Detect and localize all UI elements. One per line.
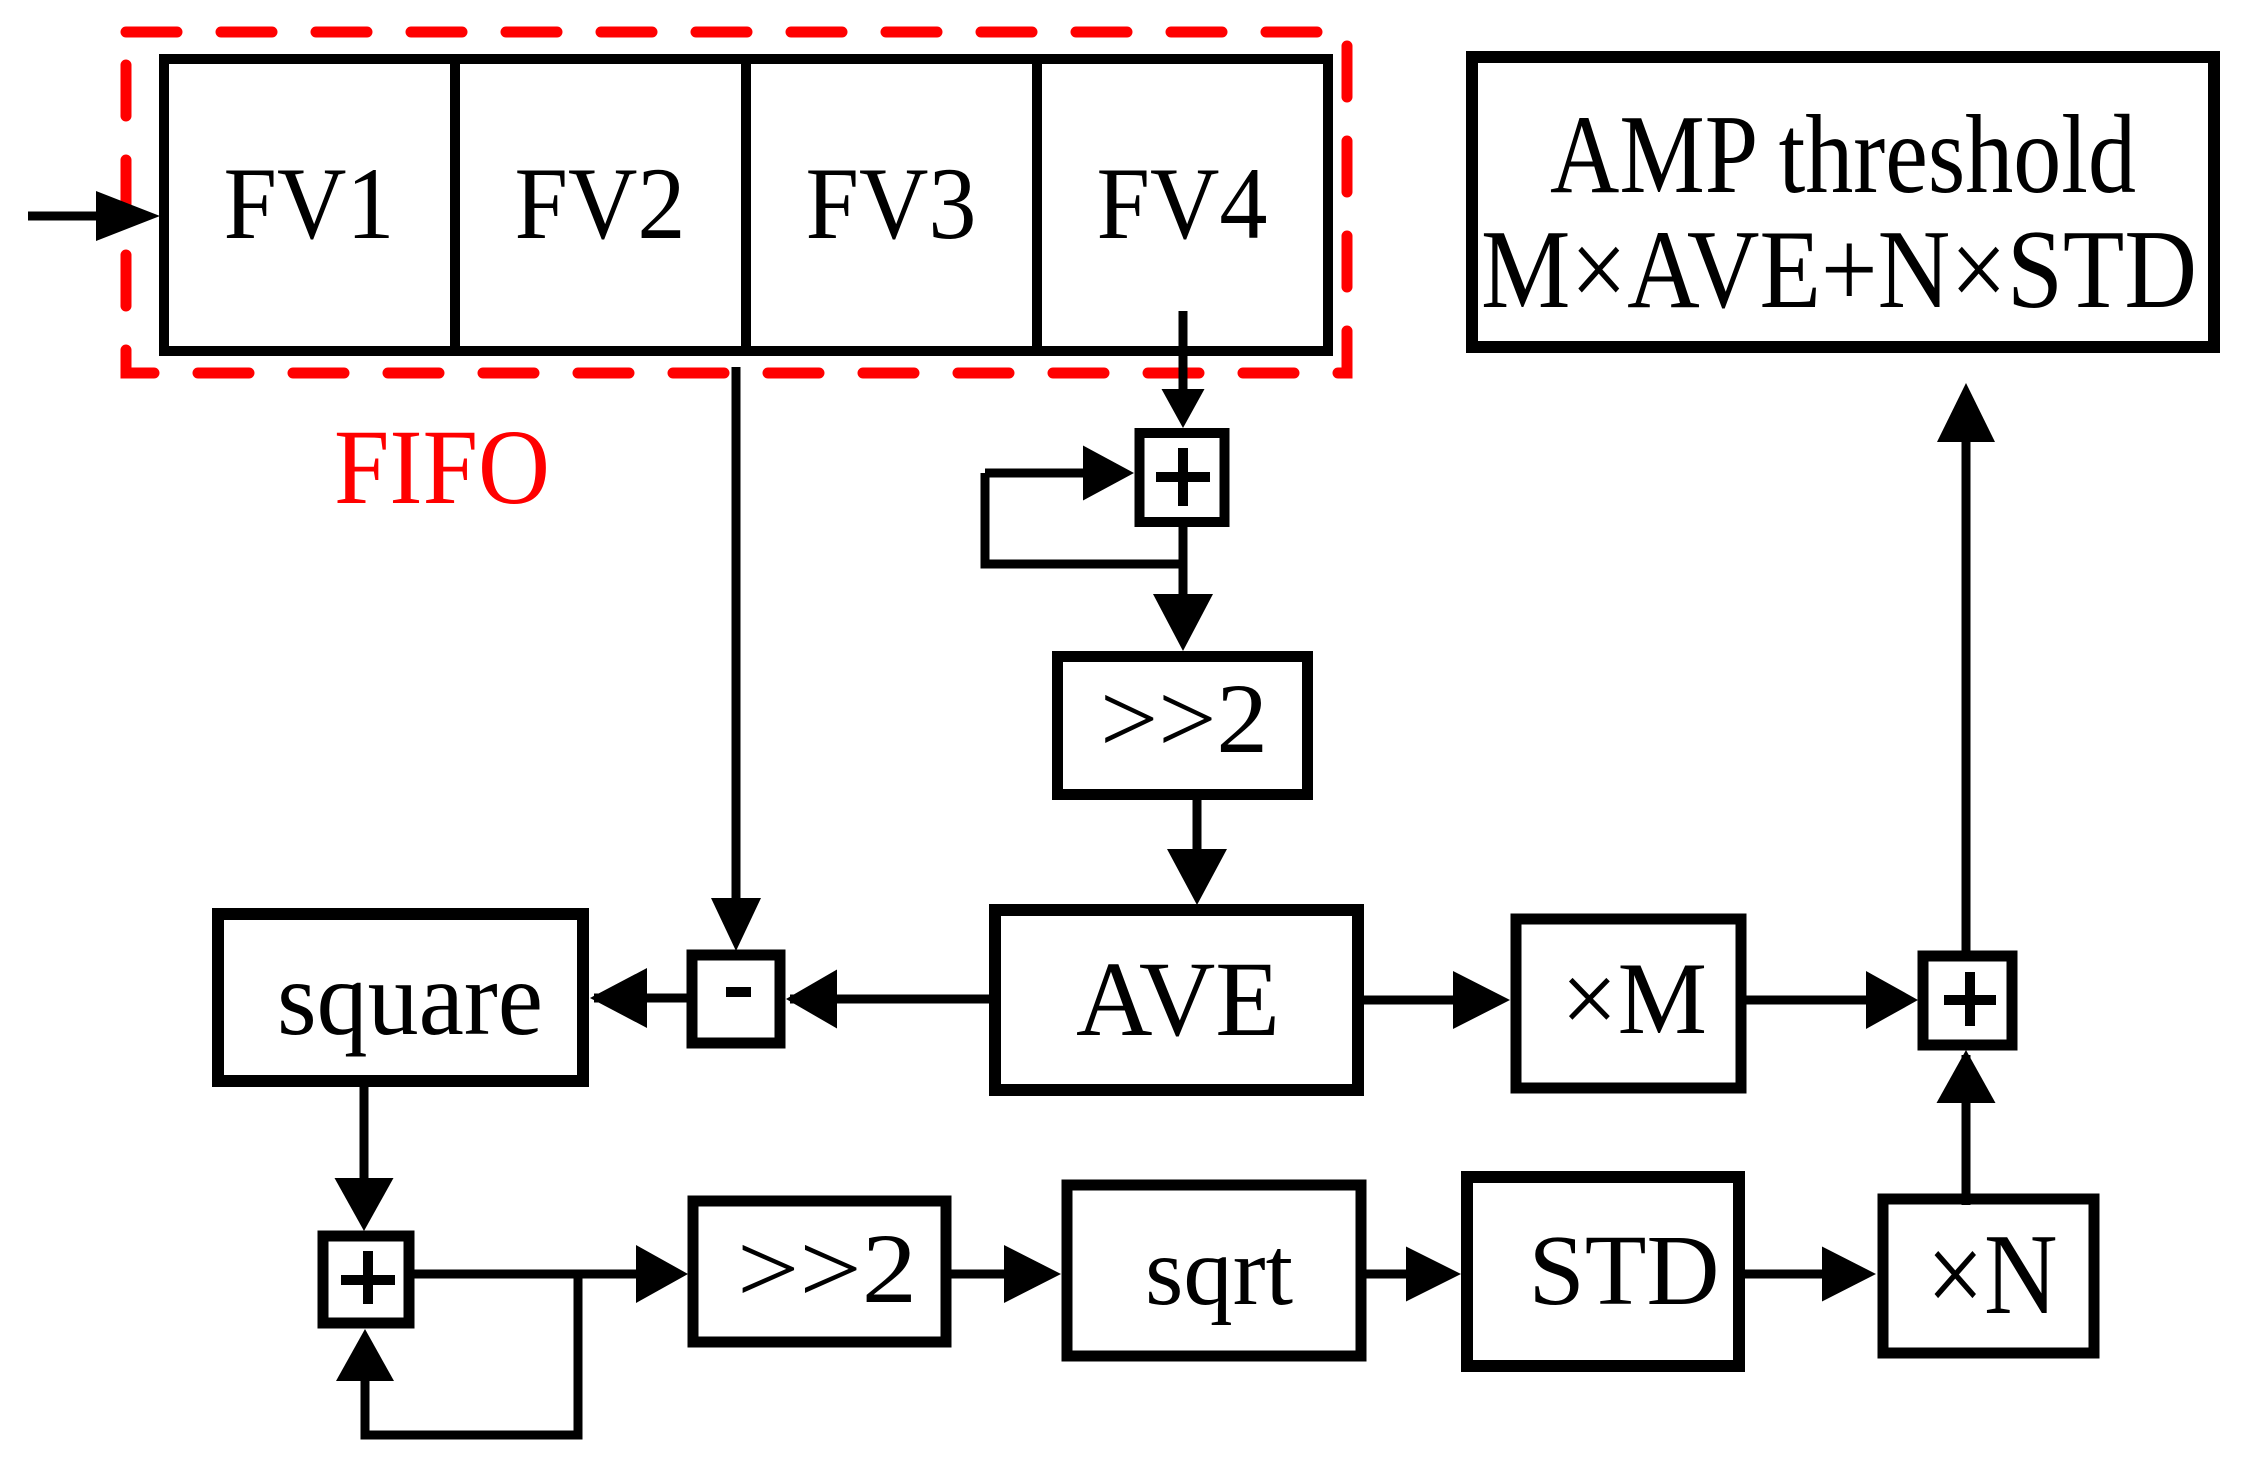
svg-text:square: square: [277, 940, 543, 1057]
svg-text:FIFO: FIFO: [334, 409, 550, 527]
svg-text:×M: ×M: [1561, 942, 1707, 1056]
svg-text:AVE: AVE: [1076, 941, 1280, 1059]
svg-text:>>2: >>2: [737, 1213, 917, 1324]
svg-text:M×AVE+N×STD: M×AVE+N×STD: [1481, 208, 2197, 332]
svg-text:>>2: >>2: [1100, 663, 1268, 774]
svg-text:FV1: FV1: [224, 147, 395, 261]
svg-text:FV3: FV3: [806, 147, 977, 261]
svg-text:AMP threshold: AMP threshold: [1550, 93, 2136, 217]
svg-text:sqrt: sqrt: [1145, 1218, 1293, 1326]
svg-text:FV2: FV2: [515, 147, 686, 261]
svg-text:STD: STD: [1529, 1214, 1720, 1326]
svg-text:FV4: FV4: [1097, 147, 1268, 261]
svg-text:×N: ×N: [1927, 1211, 2058, 1338]
